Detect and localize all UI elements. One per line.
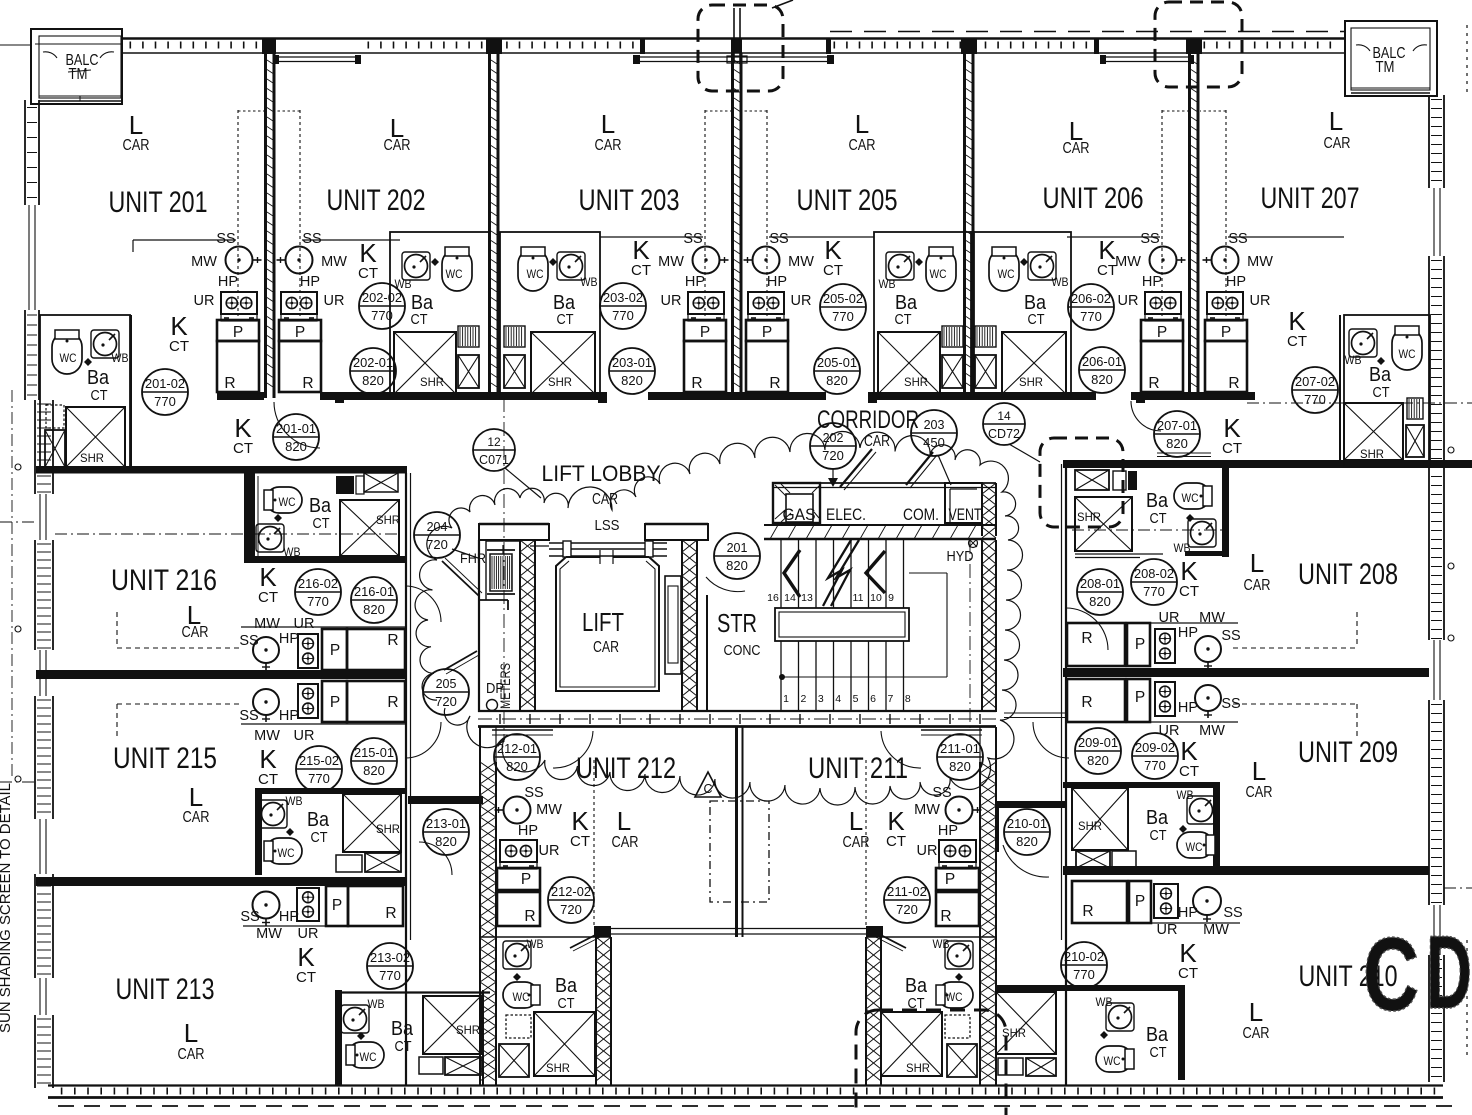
unit 205 K CT (823, 235, 843, 279)
svg-text:820: 820 (826, 373, 848, 388)
unit 216 kitchen labels (239, 616, 314, 649)
balloon 201 820 (714, 533, 760, 579)
unit 210 K CT (1178, 938, 1198, 982)
unit 202 kitchen labels (300, 231, 347, 309)
unit 210 diamond (1100, 1031, 1108, 1039)
svg-text:205: 205 (436, 677, 457, 691)
svg-text:UNIT 212: UNIT 212 (576, 752, 676, 785)
svg-text:SHR: SHR (456, 1023, 480, 1037)
property dashed line below bottom (58, 1105, 1460, 1107)
svg-text:MW: MW (1203, 922, 1229, 938)
unit 211 kitchen fixtures (866, 760, 982, 926)
svg-text:201-02: 201-02 (145, 377, 185, 391)
svg-text:SS: SS (302, 231, 321, 247)
svg-text:WB: WB (286, 794, 303, 808)
unit 206 kitchen fixtures (1141, 110, 1188, 392)
unit 207 Ba CT (1369, 364, 1392, 401)
left corridor wall (x407) (406, 473, 411, 1085)
svg-text:R: R (1148, 375, 1159, 392)
svg-text:L: L (184, 1018, 198, 1048)
svg-text:UNIT 202: UNIT 202 (327, 184, 426, 217)
balloon 204 leader (452, 549, 478, 558)
svg-text:CT: CT (258, 589, 278, 606)
kitchen counter line unit 202 (302, 239, 400, 241)
unit 209 kitchen fixtures (1067, 679, 1238, 722)
svg-text:WC: WC (1399, 347, 1416, 361)
svg-text:CT: CT (1150, 828, 1167, 844)
door arc unit 208 (1066, 608, 1108, 650)
units 212/211 south wall (480, 926, 996, 937)
svg-text:820: 820 (1166, 436, 1188, 451)
door arc unit 213 (419, 842, 452, 875)
unit 208 diamond (1186, 514, 1194, 522)
svg-text:SS: SS (1221, 696, 1240, 712)
balloon 205 720 (423, 669, 469, 715)
svg-text:P: P (1135, 689, 1145, 706)
svg-text:WC: WC (446, 267, 463, 281)
svg-text:CT: CT (1222, 440, 1242, 457)
svg-text:720: 720 (426, 537, 448, 552)
unit 206 K CT (1097, 235, 1117, 279)
grid dash-dot right y403 (1247, 402, 1472, 404)
svg-text:210-02: 210-02 (1064, 950, 1104, 964)
grid dash-dot left y534 (55, 533, 399, 535)
svg-text:820: 820 (949, 759, 971, 774)
svg-text:WC: WC (360, 1050, 377, 1064)
corridor north wall right (unit 208 top) (1063, 460, 1472, 468)
svg-text:CAR: CAR (593, 639, 619, 656)
svg-text:R: R (302, 375, 313, 392)
svg-text:770: 770 (612, 308, 634, 323)
svg-text:212-02: 212-02 (551, 885, 591, 899)
svg-text:L: L (1329, 106, 1343, 136)
svg-text:Ba: Ba (87, 367, 110, 389)
unit 203 bathroom (500, 232, 600, 397)
svg-text:SS: SS (683, 231, 702, 247)
unit 211 K CT (886, 806, 906, 850)
balloon 209-01 (1075, 728, 1121, 774)
unit 207 K CT (1287, 306, 1307, 350)
unit 210 Ba CT (1146, 1024, 1169, 1061)
balloon 202 720 (810, 423, 856, 469)
unit 211 Ba CT (905, 975, 928, 1012)
unit 209 shower (1072, 788, 1136, 868)
svg-text:Ba: Ba (1146, 1024, 1169, 1046)
svg-text:CAR: CAR (849, 137, 876, 154)
svg-text:ELEC.: ELEC. (826, 505, 866, 524)
svg-text:Ba: Ba (1369, 364, 1392, 386)
wall 203|205 (centre) (733, 53, 742, 398)
svg-text:SS: SS (524, 785, 543, 801)
unit 212 kitchen labels (518, 785, 562, 859)
svg-text:WB: WB (1174, 541, 1191, 555)
dashed drying rack 208 (1233, 612, 1357, 648)
balloon 207-01 (1154, 411, 1200, 457)
right corridor wall (x1063) (1062, 464, 1067, 1085)
svg-text:CT: CT (1028, 312, 1045, 328)
unit 211 east wall (980, 727, 996, 1085)
balcony top-right label BALC TM (1373, 45, 1406, 76)
corridor end wall left (408, 796, 483, 804)
unit 203 L CAR (595, 109, 622, 154)
unit 212 shower (534, 1012, 595, 1076)
svg-text:6: 6 (870, 693, 876, 705)
detail cloud rect bottom (856, 1010, 1006, 1115)
svg-text:HP: HP (1178, 905, 1198, 921)
services hatch strip right (981, 483, 983, 536)
corridor K CT right (1222, 413, 1242, 457)
balloon 213-01 (423, 809, 469, 855)
svg-text:SUN SHADING SCREEN TO DETAIL: SUN SHADING SCREEN TO DETAIL (0, 783, 14, 1033)
unit 213 kitchen fixtures (243, 886, 403, 926)
svg-text:209-01: 209-01 (1078, 736, 1118, 750)
unit 208 Ba CT (1146, 490, 1169, 527)
svg-text:HP: HP (938, 823, 958, 839)
door arc unit 210 (1003, 845, 1049, 877)
unit 215 kitchen fixtures (241, 681, 405, 724)
svg-text:770: 770 (1073, 967, 1095, 982)
core top wall segments (479, 524, 708, 540)
svg-text:R: R (691, 375, 702, 392)
FHR hose reel (487, 545, 515, 594)
svg-text:10: 10 (870, 592, 882, 604)
svg-text:CT: CT (313, 516, 330, 532)
svg-text:P: P (332, 897, 342, 914)
svg-text:14: 14 (997, 409, 1011, 423)
unit 215 K CT (258, 744, 278, 788)
balloon 216-02 (295, 569, 341, 615)
unit 211 kitchen labels (914, 785, 958, 859)
unit 209 kitchen labels (1159, 696, 1241, 739)
wall 201|202 (266, 53, 275, 398)
outer wall: left upper segment (25, 100, 39, 400)
svg-text:Ba: Ba (1024, 292, 1047, 314)
unit 210 kitchen fixtures (1072, 881, 1240, 923)
svg-text:Ba: Ba (309, 495, 332, 517)
svg-text:K: K (259, 744, 277, 774)
svg-text:P: P (945, 871, 955, 888)
unit 215 Ba CT (307, 809, 330, 846)
svg-text:CONC: CONC (724, 642, 761, 659)
svg-text:P: P (521, 871, 531, 888)
svg-text:MW: MW (1247, 254, 1273, 270)
svg-text:WB: WB (879, 277, 896, 291)
svg-text:WB: WB (1052, 275, 1069, 289)
unit 207 WC (1392, 326, 1422, 370)
svg-text:770: 770 (1143, 584, 1165, 599)
svg-text:CT: CT (1150, 1045, 1167, 1061)
kitchen counter line unit 206 (1067, 236, 1160, 238)
unit 211 WC (936, 982, 973, 1008)
svg-text:CAR: CAR (123, 137, 150, 154)
svg-text:206-01: 206-01 (1082, 355, 1122, 369)
svg-text:MW: MW (1115, 254, 1141, 270)
svg-text:SS: SS (240, 909, 259, 925)
unit 213 L CAR (178, 1018, 205, 1063)
svg-text:205-02: 205-02 (823, 292, 863, 306)
svg-text:L: L (1249, 997, 1263, 1027)
unit 202 L CAR (384, 113, 411, 154)
balloon 203-01 (609, 348, 655, 394)
svg-text:UR: UR (539, 843, 560, 859)
balloon 206-02 (1068, 284, 1114, 330)
svg-text:CT: CT (823, 262, 843, 279)
svg-text:UR: UR (1118, 293, 1139, 309)
unit 212 kitchen fixtures (495, 760, 595, 926)
svg-text:CAR: CAR (182, 624, 209, 641)
unit 211 top wall piece (921, 730, 982, 735)
stair west wall (706, 595, 708, 712)
property dashes above top band (830, 31, 1345, 33)
unit 216 small box (336, 473, 398, 494)
balloon 212-01 (494, 734, 540, 780)
svg-text:14: 14 (784, 592, 796, 604)
svg-text:207-02: 207-02 (1295, 375, 1335, 389)
unit 207 kitchen labels (1226, 231, 1273, 309)
svg-text:K: K (1180, 556, 1198, 586)
corridor threshold right (1004, 713, 1066, 718)
svg-text:HP: HP (279, 631, 299, 647)
svg-text:LSS: LSS (595, 517, 620, 534)
unit 208 shower (1075, 470, 1163, 558)
svg-text:SS: SS (216, 231, 235, 247)
svg-text:WC: WC (1104, 1054, 1121, 1068)
svg-text:5: 5 (853, 693, 859, 705)
svg-text:WB: WB (1096, 995, 1113, 1009)
svg-text:P: P (330, 694, 340, 711)
svg-text:210-01: 210-01 (1007, 817, 1047, 831)
svg-text:R: R (1082, 903, 1093, 920)
svg-text:UNIT 215: UNIT 215 (113, 742, 217, 775)
svg-text:R: R (1081, 694, 1092, 711)
svg-text:K: K (632, 235, 650, 265)
svg-text:SHR: SHR (906, 1061, 930, 1075)
balloon 216-01 (351, 577, 397, 623)
svg-text:SHR: SHR (1360, 447, 1384, 461)
balloon 205-02 (820, 284, 866, 330)
svg-text:VENT: VENT (949, 505, 982, 524)
svg-text:P: P (330, 642, 340, 659)
unit 209 Ba CT (1146, 807, 1169, 844)
svg-text:MW: MW (254, 728, 280, 744)
balloon 202-01 (350, 348, 396, 394)
unit 201 kitchen labels (191, 231, 238, 309)
svg-text:CAR: CAR (595, 137, 622, 154)
svg-text:L: L (617, 806, 631, 836)
unit 215 diamond (286, 828, 294, 836)
grid dash-dot left y522 (0, 521, 35, 523)
balloon 215-01 (351, 738, 397, 784)
dashed drying rack 216 (117, 612, 241, 648)
stair up-chevron 2 (866, 551, 885, 593)
door arc unit 216 (405, 586, 441, 622)
balloon 215-02 (296, 746, 342, 792)
unit 203 kitchen labels (658, 231, 705, 309)
svg-text:820: 820 (363, 602, 385, 617)
centre wall top stub above band (734, 8, 740, 63)
void west hatch wall (595, 937, 597, 1085)
svg-text:16: 16 (767, 592, 779, 604)
balloon 211-01 (937, 734, 983, 780)
detail cloud rect top centre (698, 5, 783, 91)
unit 201 kitchen fixtures (217, 110, 264, 392)
stair handrail (779, 573, 947, 680)
svg-text:L: L (1252, 756, 1266, 786)
unit 201 WB basin (84, 330, 129, 366)
svg-text:209-02: 209-02 (1135, 741, 1175, 755)
svg-text:SHR: SHR (1077, 510, 1101, 524)
svg-text:CORRIDOR: CORRIDOR (817, 406, 919, 434)
unit 211 small box (945, 1015, 977, 1077)
svg-text:MW: MW (536, 802, 562, 818)
unit 203 K CT (631, 235, 651, 279)
unit 201 L CAR (123, 110, 150, 154)
svg-text:UR: UR (1159, 723, 1180, 739)
unit 216 WB basin (256, 524, 301, 559)
unit 212 WC (503, 982, 540, 1008)
stair landing (775, 608, 909, 641)
unit 216 K CT (258, 562, 278, 606)
svg-text:CT: CT (1178, 965, 1198, 982)
lift car outline (556, 550, 659, 691)
unit 212 WB basin (503, 937, 544, 969)
svg-text:HP: HP (1178, 625, 1198, 641)
lobby lower door leaf (444, 651, 479, 674)
svg-text:Ba: Ba (1146, 807, 1169, 829)
svg-text:CAR: CAR (1324, 135, 1351, 152)
svg-text:WC: WC (998, 267, 1015, 281)
unit 215 WC (264, 838, 302, 864)
dashed drying rack 209 (1233, 704, 1357, 740)
svg-text:Ba: Ba (555, 975, 578, 997)
svg-text:L: L (601, 109, 615, 139)
svg-text:SHR: SHR (548, 375, 572, 389)
svg-text:TM: TM (1376, 59, 1395, 76)
unit 215 kitchen labels (239, 708, 314, 744)
svg-text:820: 820 (1089, 594, 1111, 609)
balloon 207-02 (1292, 367, 1338, 413)
svg-text:Ba: Ba (553, 292, 576, 314)
door leaf 211 south (866, 929, 906, 951)
svg-text:P: P (762, 324, 772, 341)
svg-text:UR: UR (298, 926, 319, 942)
svg-text:HP: HP (300, 274, 320, 290)
svg-text:WB: WB (933, 937, 950, 951)
svg-text:UR: UR (294, 616, 315, 632)
unit 209 WC (1177, 832, 1215, 858)
svg-text:WB: WB (527, 937, 544, 951)
balloon 14 CD72 (983, 403, 1025, 445)
svg-text:820: 820 (1091, 372, 1113, 387)
svg-text:SS: SS (1228, 231, 1247, 247)
outer wall: left lower segment (35, 400, 53, 1088)
unit 216 bathroom walls (244, 473, 407, 563)
svg-text:203-02: 203-02 (603, 291, 643, 305)
balloon 14 leader (1009, 444, 1040, 462)
balloon 203 450 (911, 410, 957, 456)
door arc unit 211 (881, 731, 921, 768)
svg-text:UNIT 203: UNIT 203 (579, 184, 680, 217)
unit 212 Ba CT (555, 975, 578, 1012)
unit 215 shower (336, 794, 401, 872)
unit 206 L CAR (1063, 116, 1090, 157)
wall 205|206 (965, 53, 974, 398)
unit 207 shower (1157, 315, 1424, 461)
unit 208 kitchen fixtures (1067, 623, 1238, 669)
svg-text:820: 820 (726, 558, 748, 573)
svg-text:WC: WC (1182, 491, 1199, 505)
svg-text:SHR: SHR (376, 822, 400, 836)
unit 201 bathroom walls (40, 315, 130, 467)
services top wall (773, 483, 996, 488)
lift rail pocket (665, 576, 681, 674)
svg-text:DP: DP (486, 681, 504, 697)
svg-text:HYD: HYD (947, 549, 974, 565)
svg-text:770: 770 (1080, 309, 1102, 324)
wall 216|215 (36, 670, 407, 679)
unit 216 diamond (274, 514, 282, 522)
unit 205 bathroom (874, 232, 974, 397)
right wall vent circles (1448, 447, 1454, 641)
svg-text:K: K (571, 806, 589, 836)
svg-text:GAS: GAS (783, 505, 816, 524)
stair break line (823, 540, 859, 606)
svg-text:LIFT: LIFT (582, 607, 624, 637)
svg-text:HP: HP (1142, 274, 1162, 290)
svg-text:770: 770 (379, 968, 401, 983)
balcony top-left label BALC TM (66, 52, 99, 83)
svg-text:8: 8 (905, 693, 911, 705)
detail cloud rect top centre leader (772, 0, 793, 8)
svg-text:MW: MW (321, 254, 347, 270)
svg-text:LIFT LOBBY: LIFT LOBBY (542, 461, 661, 486)
svg-text:WB: WB (581, 275, 598, 289)
svg-text:SHR: SHR (376, 513, 400, 527)
svg-text:SS: SS (1223, 905, 1242, 921)
svg-text:L: L (189, 782, 203, 812)
svg-text:SHR: SHR (80, 451, 104, 465)
svg-text:CT: CT (1179, 583, 1199, 600)
grid dash-dot left y782 (0, 781, 35, 783)
corridor door leaf 1 (840, 449, 876, 490)
unit 210 bathroom walls (996, 985, 1185, 1080)
svg-text:SHR: SHR (546, 1061, 570, 1075)
svg-text:UNIT 205: UNIT 205 (797, 184, 898, 217)
svg-text:202-01: 202-01 (353, 356, 393, 370)
centre AC dashed box (710, 801, 769, 902)
lift shaft west hatch wall (519, 540, 521, 712)
centre wall bottom stub (212|211) (737, 727, 743, 937)
svg-text:206-02: 206-02 (1071, 292, 1111, 306)
balloon 203-02 (600, 283, 646, 329)
svg-text:216-01: 216-01 (354, 585, 394, 599)
svg-text:770: 770 (371, 308, 393, 323)
stair east hatch wall (981, 540, 983, 712)
unit 212 top wall piece (492, 730, 553, 735)
svg-text:MW: MW (191, 254, 217, 270)
svg-text:K: K (1098, 235, 1116, 265)
svg-text:K: K (170, 311, 188, 341)
svg-text:CT: CT (558, 996, 575, 1012)
door arc unit 201 entry (274, 402, 320, 448)
unit 209 L CAR (1246, 756, 1273, 801)
svg-text:820: 820 (362, 373, 384, 388)
corridor door leaf 2 (906, 452, 937, 488)
svg-text:213-01: 213-01 (426, 817, 466, 831)
svg-text:SHR: SHR (420, 375, 444, 389)
svg-text:UR: UR (194, 293, 215, 309)
unit 211 shower (881, 1012, 942, 1076)
